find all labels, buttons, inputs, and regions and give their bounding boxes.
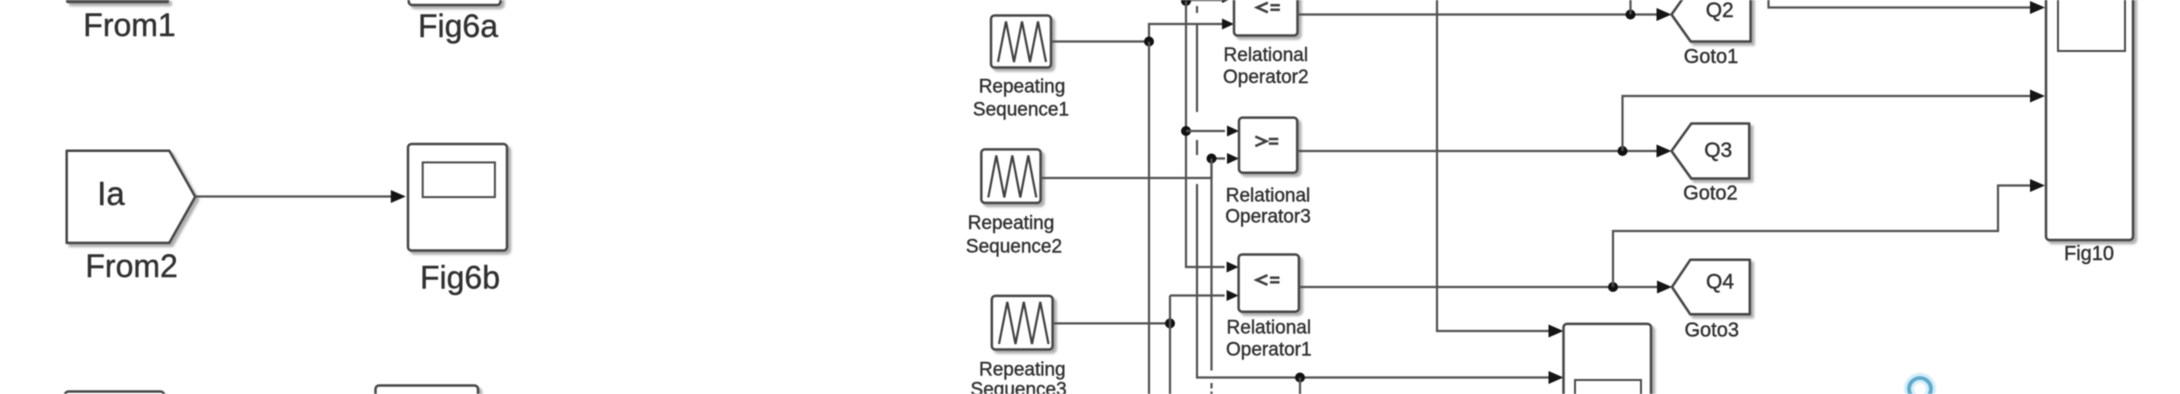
svg-text:Sequence3: Sequence3 — [971, 380, 1067, 394]
wire branch up from Q3 dot to Fig10 in2 — [1623, 96, 2032, 151]
svg-text:Operator2: Operator2 — [1223, 67, 1309, 88]
block From2 (tag Ia) — [67, 151, 196, 243]
wire From2 to Fig6b — [195, 195, 392, 197]
block Goto3 (Q4) — [1672, 260, 1750, 315]
svg-text:Operator1: Operator1 — [1226, 340, 1312, 361]
junction dot RS1 — [1144, 37, 1154, 47]
scope Fig6b — [408, 144, 507, 251]
scope Fig6a (bottom sliver) — [409, 0, 501, 5]
wire junction up to Relational Operator2 in2 — [1149, 24, 1225, 42]
wire x1186 branch to Relational Operator3 in1 — [1186, 130, 1225, 132]
svg-text:Fig10: Fig10 — [2064, 243, 2114, 265]
junction dot RS3 — [1165, 318, 1175, 328]
wire x1197 down to bottom scope in2 — [1197, 184, 1550, 378]
svg-text:Sequence2: Sequence2 — [966, 236, 1062, 257]
wire x1170 up to Relational Operator1 in2 — [1169, 296, 1171, 394]
wire RelOp2 output to Goto1 — [1298, 13, 1659, 15]
wire RS1 output to junction — [1051, 40, 1149, 42]
junction dot on y377 wire — [1295, 373, 1305, 383]
wire x1197 segments — [1196, 24, 1198, 112]
junction dot Q2 wire — [1626, 10, 1636, 20]
scope bottom (partial) — [1564, 324, 1652, 394]
junction dot RS2 — [1207, 154, 1217, 164]
svg-text:Goto2: Goto2 — [1683, 183, 1737, 205]
svg-text:Repeating: Repeating — [979, 77, 1066, 98]
svg-text:From2: From2 — [85, 248, 177, 284]
wire node A vertical line x1186 — [1186, 1, 1225, 267]
junction dot x1186 to RelOp3 in1 — [1181, 126, 1191, 136]
block Goto1 (Q2) — [1672, 0, 1751, 42]
svg-text:Relational: Relational — [1226, 185, 1311, 206]
svg-text:Q2: Q2 — [1706, 0, 1734, 22]
svg-text:Q4: Q4 — [1706, 271, 1734, 294]
block pentagon sliver bottom-left — [65, 392, 164, 394]
svg-text:Operator3: Operator3 — [1225, 207, 1311, 228]
block Repeating Sequence3 — [992, 296, 1053, 350]
wire branch up from Q2 dot — [1629, 0, 1631, 15]
annotation blue circle — [1909, 378, 1931, 394]
scope sliver bottom-middle-left — [376, 386, 479, 394]
wire RS3 output — [1053, 322, 1170, 324]
junction dot Q3 wire — [1618, 146, 1628, 156]
svg-text:Repeating: Repeating — [968, 213, 1055, 234]
scope Fig10 — [2046, 0, 2133, 240]
wire RelOp3 output to Goto2 — [1297, 150, 1658, 152]
op-amp Relational Operator1 — [1239, 255, 1299, 312]
block Repeating Sequence2 — [981, 149, 1040, 203]
block From1 (bottom sliver) — [66, 0, 169, 3]
block Repeating Sequence1 — [991, 16, 1051, 68]
wire top into Relational Operator2 in1 — [1186, 0, 1223, 1]
op-amp Relational Operator2 — [1234, 0, 1298, 36]
svg-text:Relational: Relational — [1224, 45, 1309, 66]
svg-text:Goto1: Goto1 — [1684, 46, 1738, 68]
svg-text:Fig6a: Fig6a — [418, 8, 498, 44]
wire branch up from Q4 dot to Fig10 in3 — [1613, 186, 2032, 288]
op-amp Relational Operator3 — [1239, 118, 1297, 173]
wire dashed segment top x1197 — [1196, 6, 1198, 13]
svg-text:Repeating: Repeating — [979, 360, 1066, 381]
svg-text:Sequence1: Sequence1 — [973, 100, 1069, 121]
wire from top to Fig10 in1 — [1769, 0, 2032, 8]
svg-text:Fig6b: Fig6b — [420, 260, 500, 296]
svg-text:Q3: Q3 — [1704, 139, 1732, 162]
wire bus down from RS1 junction — [1148, 42, 1150, 394]
svg-text:Relational: Relational — [1227, 318, 1312, 339]
svg-text:Goto3: Goto3 — [1684, 320, 1738, 342]
junction dot Q4 wire — [1608, 282, 1618, 292]
wire x1437 down to bottom scope in1 — [1437, 0, 1550, 331]
wire branch down from dot — [1299, 378, 1301, 394]
block Goto2 (Q3) — [1672, 124, 1750, 179]
wire line C down from RS2 junction — [1210, 159, 1212, 371]
junction dot top — [1181, 0, 1191, 6]
svg-text:From1: From1 — [83, 7, 175, 43]
wire RS2 output to Relational Operator3 in2 — [1041, 159, 1225, 179]
wire RelOp1 output to Goto3 — [1299, 286, 1659, 288]
svg-text:Ia: Ia — [97, 175, 125, 212]
